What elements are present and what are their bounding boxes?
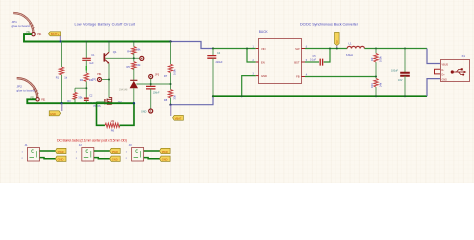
junction output at C6 xyxy=(404,48,406,50)
pin pad P$1 of JP1 xyxy=(27,32,43,36)
svg-text:VIN: VIN xyxy=(261,47,266,51)
wire SW net xyxy=(305,48,347,50)
wire R9 top stub xyxy=(375,49,377,54)
wire node split horizontal y88 xyxy=(75,87,86,89)
junction x86.3 on rail xyxy=(85,41,87,43)
svg-text:1M: 1M xyxy=(111,119,115,123)
test point TP3 pad xyxy=(149,74,160,79)
svg-text:Low Voltage Battery Cutoff Cir: Low Voltage Battery Cutoff Circuit xyxy=(75,23,136,27)
wire L1 to output xyxy=(364,48,427,50)
svg-text:D-: D- xyxy=(442,69,445,72)
net flag J1 GND xyxy=(55,156,66,162)
wire gate pulldown loop left xyxy=(97,102,106,125)
net flag J2 GND xyxy=(110,156,121,162)
junction SW at bootstrap xyxy=(329,48,331,50)
wire EN tie to VIN xyxy=(247,49,256,63)
svg-text:1k: 1k xyxy=(64,76,67,80)
junction navy link xyxy=(169,104,171,106)
resistor R2 xyxy=(80,73,94,82)
connector JP1 (wire-to-board pigtail) xyxy=(12,13,35,32)
svg-text:J1: J1 xyxy=(25,143,28,147)
svg-text:33k: 33k xyxy=(173,95,177,100)
pin 4 FB xyxy=(301,75,307,77)
wire R5 to diode xyxy=(133,68,135,80)
svg-text:2: 2 xyxy=(76,158,78,160)
resistor R10 xyxy=(370,78,382,88)
svg-text:GND: GND xyxy=(58,158,64,162)
wire C5 to SW node xyxy=(324,49,330,63)
capacitor C1 xyxy=(82,54,95,65)
svg-text:100k: 100k xyxy=(173,69,177,75)
wire FB net xyxy=(305,76,376,78)
svg-text:PWR: PWR xyxy=(58,150,64,154)
test point TP4 pad GND xyxy=(141,109,153,114)
wire BST to cap xyxy=(305,61,319,63)
wire column x133.8 from rail xyxy=(133,42,135,47)
svg-text:BST: BST xyxy=(294,60,300,64)
svg-text:R8: R8 xyxy=(164,98,168,102)
svg-text:GND: GND xyxy=(442,78,448,81)
svg-text:J2: J2 xyxy=(79,143,82,147)
connector X1 USB port xyxy=(441,54,470,82)
svg-text:JP3: JP3 xyxy=(155,74,160,77)
pin pad P$1 of JP2 xyxy=(31,97,47,101)
wire GND rail from JP2 xyxy=(27,99,134,103)
junction x133.8 on rail xyxy=(133,41,135,43)
junction gnd rail x405 xyxy=(404,95,406,97)
junction FB node xyxy=(375,76,377,78)
junction at cap C4 xyxy=(212,47,214,49)
net flag VOUT (vertical) xyxy=(335,32,340,48)
wire R8 bottom xyxy=(170,98,172,105)
svg-text:1: 1 xyxy=(76,151,78,153)
svg-text:R3: R3 xyxy=(67,99,71,103)
svg-text:56k: 56k xyxy=(136,48,141,52)
svg-text:GND: GND xyxy=(141,111,147,114)
net flag GND xyxy=(49,103,62,116)
junction on rail at flag stub xyxy=(59,40,61,42)
junction GND rail at x61.5 xyxy=(60,102,62,104)
svg-text:P$1: P$1 xyxy=(41,99,46,101)
resistor R7 xyxy=(164,64,177,78)
wire column x61.5 lower xyxy=(61,75,63,103)
svg-text:24k: 24k xyxy=(379,82,383,87)
svg-text:220uF: 220uF xyxy=(216,61,224,64)
connector JP2 (wire-to-board pigtail) xyxy=(17,78,39,97)
net flag J3 PWR xyxy=(160,148,171,154)
svg-text:5V: 5V xyxy=(335,40,339,43)
svg-text:10k: 10k xyxy=(136,63,141,67)
wire C4 to buck gnd rail xyxy=(212,58,214,96)
wire column x61.5 upper xyxy=(61,42,63,68)
wire column x86.3 upper xyxy=(85,42,87,59)
svg-text:100nF: 100nF xyxy=(153,92,160,95)
svg-text:1N4148: 1N4148 xyxy=(119,89,128,92)
wire navy segment of top rail xyxy=(171,42,214,49)
svg-text:BUCK: BUCK xyxy=(259,30,269,34)
resistor R4 xyxy=(127,47,141,55)
wire J3 tip xyxy=(144,150,160,152)
net flag VBATT xyxy=(171,105,184,121)
net flag J2 PWR xyxy=(110,148,121,154)
pin 5 BST xyxy=(301,60,307,62)
junction base node xyxy=(133,57,135,59)
capacitor C4 xyxy=(207,52,223,64)
wire C6 to gnd rail xyxy=(404,76,406,96)
wire base of Q1 to divider xyxy=(105,57,139,59)
wire to R3 xyxy=(74,88,76,92)
net flag J3 GND xyxy=(160,156,171,162)
junction y84 x170.5 xyxy=(170,83,172,85)
wire buck gnd rail xyxy=(213,95,427,97)
svg-text:R9: R9 xyxy=(370,57,374,61)
connector J2 DC barrel jack xyxy=(76,143,94,161)
inductor L1 xyxy=(346,41,364,57)
pin 6 SW xyxy=(301,47,307,49)
wire J2 sleeve xyxy=(94,158,110,159)
svg-text:PWR: PWR xyxy=(162,150,168,154)
capacitor C6 (polarized output) xyxy=(391,70,410,83)
op-amp/regulator U1 buck converter IC xyxy=(259,30,302,84)
junction EN/VIN xyxy=(246,48,248,50)
svg-text:C5: C5 xyxy=(313,55,317,58)
wire top rail BATT+ xyxy=(62,41,171,43)
transistor Q2 (P-MOSFET) xyxy=(94,98,123,109)
svg-text:J3: J3 xyxy=(129,143,132,147)
svg-text:P$1: P$1 xyxy=(37,34,42,36)
svg-text:R5: R5 xyxy=(127,65,131,69)
svg-text:R6: R6 xyxy=(111,128,115,132)
wire C3 to TP4 xyxy=(150,89,152,109)
wire VBUS navy xyxy=(427,49,440,64)
svg-text:D+: D+ xyxy=(442,74,446,77)
wire VIN net to IC xyxy=(213,48,256,50)
wire navy link to buck ground xyxy=(171,96,214,105)
svg-text:GND: GND xyxy=(261,74,267,78)
svg-text:2: 2 xyxy=(22,158,24,160)
wire IC GND pin to rail xyxy=(242,76,256,97)
transistor Q1 xyxy=(104,50,118,64)
svg-text:0.1uF: 0.1uF xyxy=(310,59,317,62)
svg-text:Q1: Q1 xyxy=(113,50,117,54)
wire C1 to R2 xyxy=(85,60,87,73)
svg-text:EN: EN xyxy=(261,60,265,64)
wire TP1 to emitter line xyxy=(102,79,109,81)
svg-text:R1: R1 xyxy=(56,76,60,80)
svg-text:GND: GND xyxy=(162,158,168,162)
junction output at R9 xyxy=(375,48,377,50)
test point TP1 pad xyxy=(92,74,102,82)
resistor R3 xyxy=(67,92,83,102)
junction gnd rail x376 xyxy=(375,95,377,97)
wire BATT+ from JP1 to top rail xyxy=(24,34,62,41)
wire gate of Q2 to loop xyxy=(97,101,105,103)
junction y84 x150.7 xyxy=(150,83,152,85)
connector J1 DC barrel jack xyxy=(22,143,40,161)
svg-text:100uF: 100uF xyxy=(391,70,399,73)
svg-text:33k: 33k xyxy=(78,96,83,100)
svg-text:GND: GND xyxy=(50,112,56,116)
svg-text:DC Barrel Jacks (2.1mm center: DC Barrel Jacks (2.1mm center post x 5.5… xyxy=(57,139,127,143)
wire C6 top xyxy=(404,49,406,73)
wire USB GND navy xyxy=(427,79,440,97)
wire C2 bottom to rail xyxy=(85,100,87,103)
svg-text:1: 1 xyxy=(22,151,24,153)
connector J3 DC barrel jack xyxy=(126,143,144,161)
svg-text:C4: C4 xyxy=(217,52,221,55)
svg-text:FB: FB xyxy=(296,74,300,78)
svg-text:glue to board: glue to board xyxy=(17,89,35,93)
wire R10 to gnd rail xyxy=(375,87,377,96)
svg-text:GND: GND xyxy=(112,158,118,162)
svg-text:16V: 16V xyxy=(398,79,403,82)
svg-text:BATT+: BATT+ xyxy=(51,32,60,36)
pin 3 GND xyxy=(253,74,259,76)
wire mid rail y84 xyxy=(136,83,170,85)
svg-text:R7: R7 xyxy=(164,74,168,78)
capacitor C5 (bootstrap) xyxy=(310,55,323,66)
wire J1 sleeve xyxy=(40,158,56,159)
resistor R5 xyxy=(127,62,142,70)
test point TP2 pad xyxy=(140,56,144,60)
wire gate pulldown loop right xyxy=(119,103,134,125)
capacitor C2 xyxy=(84,95,95,105)
svg-text:C2: C2 xyxy=(89,95,93,98)
junction buck gnd rail left end xyxy=(212,95,214,97)
wire J1 tip xyxy=(40,150,56,152)
svg-text:R10: R10 xyxy=(370,83,374,88)
junction emitter/TP1 xyxy=(108,79,110,81)
wire TP3 to y84 xyxy=(150,79,152,87)
svg-text:VBUS: VBUS xyxy=(442,63,449,66)
pin 1 VIN xyxy=(253,47,259,49)
wire R9 to FB node xyxy=(375,62,377,78)
wire column x170.5 from rail xyxy=(170,42,172,65)
resistor R8 xyxy=(164,90,177,103)
wire R7 to node y84 xyxy=(170,73,172,90)
wire bright segment xyxy=(85,66,87,71)
svg-text:1uF: 1uF xyxy=(89,62,94,65)
resistor R9 xyxy=(370,53,382,62)
wire C4 top stub xyxy=(212,49,214,56)
junction loop to rail xyxy=(133,102,135,104)
svg-text:C1: C1 xyxy=(91,54,95,57)
svg-text:VBAT: VBAT xyxy=(175,117,182,121)
wire diode to loop xyxy=(133,88,135,125)
wire collector of Q1 to rail xyxy=(108,42,110,53)
wire J3 sleeve xyxy=(144,158,160,159)
resistor R1 xyxy=(56,67,68,80)
svg-text:R4: R4 xyxy=(127,50,131,54)
svg-text:100k: 100k xyxy=(379,56,383,62)
svg-text:glue to board: glue to board xyxy=(12,24,30,28)
svg-text:PWR: PWR xyxy=(112,150,118,154)
net flag J1 PWR xyxy=(55,148,66,154)
net flag BATT+ xyxy=(49,32,61,42)
wire R4 to node xyxy=(133,53,135,61)
svg-text:6.8uH: 6.8uH xyxy=(346,53,353,57)
junction at x170.5 xyxy=(169,40,171,42)
USB trident icon xyxy=(451,68,467,75)
svg-text:DC/DC Synchronous Buck Convert: DC/DC Synchronous Buck Converter xyxy=(300,22,359,26)
pins D-/D+ no-connect bracket xyxy=(435,69,441,74)
svg-text:1: 1 xyxy=(126,151,128,153)
wire emitter of Q1 down xyxy=(108,63,110,97)
svg-text:TP1: TP1 xyxy=(92,79,97,82)
wire R2 bottom to node xyxy=(85,81,87,98)
resistor R6 (horizontal) xyxy=(105,119,120,133)
wire J2 tip xyxy=(94,150,110,152)
svg-text:SW: SW xyxy=(295,47,300,51)
junction node y88 xyxy=(85,87,87,89)
svg-text:X1: X1 xyxy=(462,54,466,58)
wire R3 bottom to rail xyxy=(74,99,76,104)
svg-text:R2: R2 xyxy=(80,78,84,82)
diode D1 (zener) xyxy=(119,80,138,91)
capacitor C3 xyxy=(146,86,160,94)
svg-text:P$1: P$1 xyxy=(97,74,102,76)
svg-text:L1: L1 xyxy=(349,41,353,45)
junction gnd rail x244 xyxy=(241,95,243,97)
svg-text:2: 2 xyxy=(126,158,128,160)
junction x109 on rail xyxy=(108,41,110,43)
pin 2 EN xyxy=(253,60,259,62)
junction SW at flag xyxy=(336,48,338,50)
